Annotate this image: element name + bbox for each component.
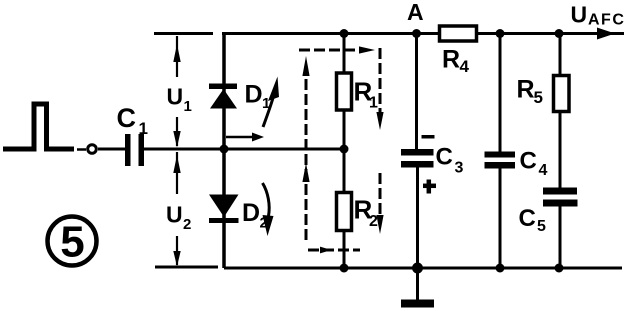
svg-text:C: C bbox=[519, 205, 536, 232]
svg-text:U: U bbox=[166, 202, 183, 228]
svg-text:2: 2 bbox=[369, 213, 378, 230]
svg-text:2: 2 bbox=[183, 216, 191, 233]
svg-text:AFC: AFC bbox=[588, 12, 625, 29]
svg-text:A: A bbox=[407, 0, 424, 25]
svg-text:R: R bbox=[442, 46, 460, 74]
svg-text:5: 5 bbox=[534, 88, 543, 107]
svg-text:C: C bbox=[117, 103, 137, 133]
svg-text:1: 1 bbox=[369, 95, 378, 112]
svg-text:D: D bbox=[245, 81, 263, 109]
svg-text:5: 5 bbox=[60, 218, 84, 267]
svg-text:U: U bbox=[167, 84, 184, 110]
svg-text:1: 1 bbox=[262, 95, 270, 112]
svg-text:5: 5 bbox=[537, 218, 546, 235]
svg-text:3: 3 bbox=[455, 160, 464, 177]
svg-text:D: D bbox=[242, 199, 260, 227]
svg-text:1: 1 bbox=[184, 98, 192, 115]
svg-text:C: C bbox=[436, 144, 453, 171]
svg-text:4: 4 bbox=[539, 162, 548, 179]
svg-text:C: C bbox=[520, 148, 537, 175]
svg-text:1: 1 bbox=[139, 119, 148, 138]
svg-text:U: U bbox=[571, 2, 588, 28]
svg-text:R: R bbox=[517, 76, 535, 104]
svg-text:4: 4 bbox=[460, 57, 470, 76]
svg-text:2: 2 bbox=[260, 215, 268, 232]
